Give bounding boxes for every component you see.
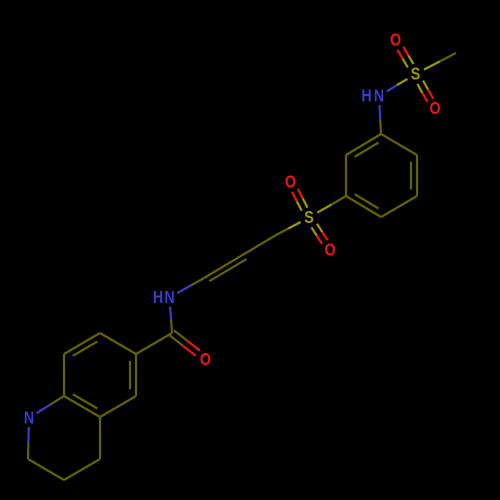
bond X2-V (240, 235, 276, 257)
bond N2-C3 (170, 307, 171, 320)
ring D bond D4-D3 (64, 459, 100, 480)
ring C bond R5-R6 (64, 333, 100, 354)
svg-text:O: O (285, 172, 296, 192)
svg-text:N: N (24, 408, 34, 428)
ring A bond A2-A3 (416, 155, 418, 196)
svg-text:S: S (304, 208, 314, 228)
double bond S1=O1 (408, 55, 413, 64)
double bond A6=A1 inner line (355, 143, 379, 157)
ring C bond R1-R2 (135, 354, 137, 396)
ring A bond A4-A5 (346, 196, 381, 217)
svg-text:H: H (361, 86, 371, 106)
svg-text:N: N (164, 288, 174, 308)
svg-text:O: O (390, 30, 401, 50)
svg-text:O: O (324, 240, 335, 260)
ring C bond R2-R3 (100, 396, 136, 417)
ring D bond N3-D5 (27, 427, 30, 443)
bond S2-X2 (288, 222, 300, 229)
double bond S2=O4 (303, 198, 308, 207)
double bond C3=O3 (170, 336, 183, 346)
bond N1-ring A (378, 105, 381, 120)
double bond V=B1 main line (204, 257, 240, 279)
double bond S1=O2 (417, 84, 422, 93)
ring C bond R6-R1 (100, 333, 136, 354)
bond S1-CH3 methyl (424, 61, 440, 69)
svg-text:S: S (411, 64, 421, 84)
bond C3-ring C (136, 333, 172, 354)
bond B1-N2 (191, 278, 204, 286)
ring D bond R4-N3 (50, 396, 64, 405)
ring A bond A5-A6 (345, 155, 347, 196)
double bond V=B1 inner line (209, 259, 246, 281)
double bond R1=R2 inner line (129, 361, 131, 390)
ring A bond A1-A2 (381, 134, 417, 155)
ring D bond D5-D4 (28, 459, 64, 480)
ring D bond D3-R3 (99, 417, 101, 459)
svg-text:O: O (200, 350, 211, 370)
double bond R5=R6 inner line (73, 342, 98, 356)
double bond S2=O5 (311, 227, 316, 235)
ring A bond A6-A1 (346, 134, 381, 155)
svg-text:N: N (374, 86, 384, 106)
ring A bond A3-A4 (381, 196, 417, 217)
ring C bond R3-R4 (64, 396, 100, 417)
double bond R3=R4 inner line (73, 394, 98, 408)
ring C bond R4-R5 (63, 354, 65, 396)
svg-text:H: H (153, 288, 163, 308)
double bond A4=A5 inner line (355, 194, 379, 208)
double bond A2=A3 inner line (410, 162, 412, 190)
svg-text:O: O (429, 99, 440, 119)
bond N1-S1 (387, 85, 397, 91)
bond ring A-S2 (332, 196, 346, 204)
